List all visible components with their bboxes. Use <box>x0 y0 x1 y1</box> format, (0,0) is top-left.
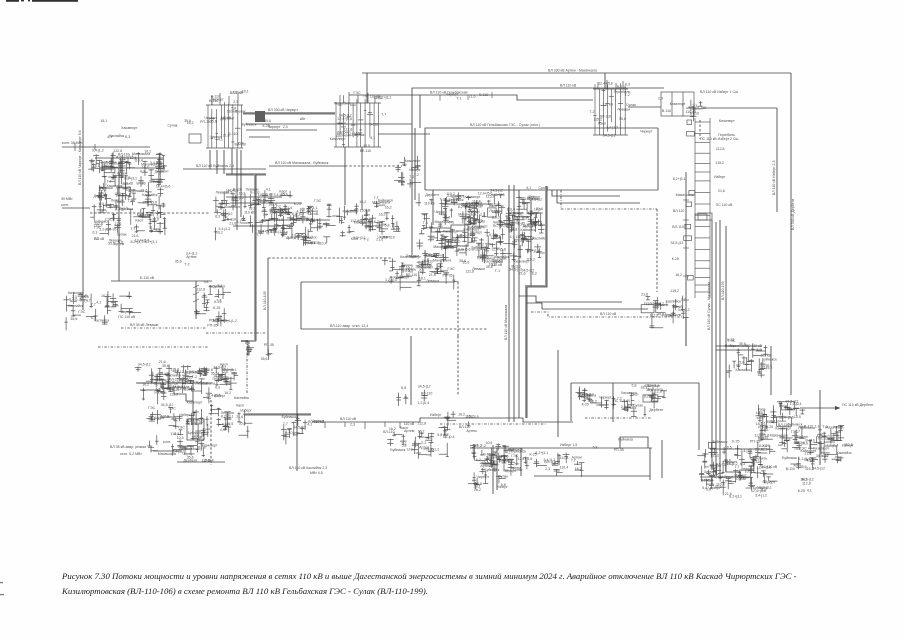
svg-text:35,6: 35,6 <box>203 459 210 463</box>
label bus 422 <box>340 413 442 421</box>
svg-text:110 кВ: 110 кВ <box>602 103 613 107</box>
svg-text:Кизилюрт: Кизилюрт <box>209 285 225 289</box>
svg-text:12,4+j5,6: 12,4+j5,6 <box>206 393 221 397</box>
svg-text:6,3: 6,3 <box>625 83 630 87</box>
svg-text:4,1: 4,1 <box>220 428 225 432</box>
svg-text:4,1: 4,1 <box>237 220 242 224</box>
svg-text:ГЭС: ГЭС <box>495 210 502 214</box>
wire bus 448 <box>470 447 652 449</box>
svg-text:Каспийск: Каспийск <box>528 211 543 215</box>
scan artifact top edge <box>6 0 78 2</box>
svg-text:ВЛ-110: ВЛ-110 <box>360 149 372 153</box>
svg-text:Сулак: Сулак <box>185 379 195 383</box>
svg-text:конт. 39 МВт: конт. 39 МВт <box>62 141 83 145</box>
ticks bus422 <box>325 422 400 429</box>
labels top clusters extra <box>209 95 238 105</box>
wire vertical 237 <box>236 149 238 230</box>
svg-text:РП-35: РП-35 <box>503 458 513 462</box>
svg-text:Махачкала: Махачкала <box>730 344 748 348</box>
svg-text:Кизилюрт: Кизилюрт <box>405 159 421 163</box>
wire row 130 <box>246 129 317 131</box>
wire vertical 268 <box>267 258 269 356</box>
svg-text:6,3: 6,3 <box>140 169 145 173</box>
svg-text:3,4-j1,2: 3,4-j1,2 <box>92 149 104 153</box>
substation box 3-cell <box>661 92 694 116</box>
wire staircase 1 <box>519 296 622 302</box>
wire loop top <box>571 382 699 384</box>
wire dash bus 213 <box>90 212 210 214</box>
svg-text:4,1: 4,1 <box>266 188 271 192</box>
wire fan3 vert dash <box>656 209 658 292</box>
svg-text:ВЛ-110 авар. откл. 12,4: ВЛ-110 авар. откл. 12,4 <box>330 324 368 328</box>
svg-text:В-110: В-110 <box>472 247 481 251</box>
svg-text:3,4-j1,2: 3,4-j1,2 <box>741 449 753 453</box>
wire box2 top <box>301 281 455 283</box>
substation cluster buynaksk <box>213 190 302 240</box>
svg-text:5,8: 5,8 <box>437 433 442 437</box>
svg-text:4,1: 4,1 <box>408 270 413 274</box>
substation cluster FR1 <box>778 425 844 469</box>
bus column Kizilyurt <box>334 95 381 147</box>
svg-text:16,2: 16,2 <box>101 294 108 298</box>
svg-text:1,2-j0,4: 1,2-j0,4 <box>443 435 455 439</box>
label row <box>263 119 288 129</box>
svg-text:34,5-j12: 34,5-j12 <box>603 133 616 137</box>
svg-text:кВт: кВт <box>300 117 306 121</box>
svg-text:РП-35: РП-35 <box>750 440 760 444</box>
svg-text:16,2: 16,2 <box>100 210 107 214</box>
svg-text:34,5-j12: 34,5-j12 <box>816 454 829 458</box>
wire BR1 h449 <box>710 448 770 450</box>
svg-text:21,6: 21,6 <box>365 219 372 223</box>
svg-text:Чирюрт: Чирюрт <box>763 481 776 485</box>
svg-text:35,6: 35,6 <box>264 119 271 123</box>
svg-text:7,7: 7,7 <box>256 233 261 237</box>
labels inside Kizilyurt col <box>336 114 378 140</box>
svg-text:ПС 110 кВ: ПС 110 кВ <box>118 315 135 319</box>
substation labels Kizilyurt <box>330 96 392 153</box>
stub TL1 tops <box>212 93 238 105</box>
wire h197 <box>226 196 282 198</box>
svg-text:16,2: 16,2 <box>172 369 179 373</box>
stub TM1 tops <box>340 92 375 103</box>
substation cluster 420 bottom <box>387 431 448 459</box>
substation cluster BC1b <box>281 414 308 445</box>
svg-text:12,4+j5,6: 12,4+j5,6 <box>456 248 471 252</box>
svg-text:Чирюрт: Чирюрт <box>226 189 239 193</box>
svg-text:В-110: В-110 <box>697 106 706 110</box>
svg-text:ВЛ 110 кВ Изберг 1 Сш: ВЛ 110 кВ Изберг 1 Сш <box>700 90 738 94</box>
svg-text:Буйнакск: Буйнакск <box>753 486 768 490</box>
svg-text:110 кВ: 110 кВ <box>424 201 435 205</box>
svg-text:6,3: 6,3 <box>285 430 290 434</box>
label VL top <box>548 69 597 73</box>
svg-text:Махачкала: Махачкала <box>435 220 453 224</box>
wire vert 650b <box>649 448 651 480</box>
wire gray main path <box>526 186 546 418</box>
tick marks 147 <box>75 143 95 151</box>
svg-text:ВЛ 110 кВ Чирюрт - Кизилюрт 5,: ВЛ 110 кВ Чирюрт - Кизилюрт 5,6 <box>78 130 82 185</box>
wire fan 3 dashdot <box>561 190 657 209</box>
wire h220 <box>262 219 330 221</box>
svg-text:18,1: 18,1 <box>358 219 365 223</box>
svg-text:34,5-j12: 34,5-j12 <box>339 114 352 118</box>
svg-text:21,6: 21,6 <box>519 272 526 276</box>
svg-text:Касп: Касп <box>236 404 244 408</box>
svg-text:2,3: 2,3 <box>283 125 288 129</box>
svg-text:7,7: 7,7 <box>473 444 478 448</box>
svg-text:4,1: 4,1 <box>481 461 486 465</box>
svg-text:Кизилюрт: Кизилюрт <box>400 255 416 259</box>
svg-text:4,1: 4,1 <box>807 459 812 463</box>
wire stub 605 <box>604 73 606 89</box>
wire gray companion <box>527 186 547 418</box>
transformer box dark <box>255 111 265 122</box>
labels 437 row <box>593 437 634 452</box>
svg-text:Изберг: Изберг <box>430 413 442 417</box>
wire big box right <box>657 128 659 190</box>
svg-text:110,4: 110,4 <box>407 447 416 451</box>
svg-text:35,6: 35,6 <box>237 142 244 146</box>
substation cluster central <box>416 192 513 265</box>
labels left bus rows <box>168 379 202 392</box>
substation cluster loop inner <box>576 387 668 418</box>
svg-text:ВЛ 330 кВ Чирюрт: ВЛ 330 кВ Чирюрт <box>268 108 298 112</box>
wire corner 248 <box>241 341 248 356</box>
labels 250 rows <box>175 252 198 267</box>
svg-text:10,5: 10,5 <box>177 436 184 440</box>
svg-text:Т-2: Т-2 <box>414 173 419 177</box>
svg-text:35,6: 35,6 <box>459 259 466 263</box>
svg-text:112,8: 112,8 <box>344 128 353 132</box>
svg-text:34,5-j12: 34,5-j12 <box>671 241 684 245</box>
wire drop 217 <box>216 150 218 174</box>
svg-text:34,5-j12: 34,5-j12 <box>270 230 283 234</box>
svg-text:ВЛ 330 кВ Артем - Махачкала: ВЛ 330 кВ Артем - Махачкала <box>548 69 597 73</box>
wire h203 <box>230 202 302 204</box>
svg-text:К-25: К-25 <box>263 124 270 128</box>
label tie <box>268 108 306 121</box>
svg-text:ВЛ 330 кВ Дербент: ВЛ 330 кВ Дербент <box>791 198 795 230</box>
svg-text:16,2: 16,2 <box>575 467 582 471</box>
wire bundle 712 b <box>715 222 717 452</box>
svg-text:Кизилюрт: Кизилюрт <box>508 211 524 215</box>
svg-text:РП-35: РП-35 <box>209 319 219 323</box>
component box central <box>451 225 468 246</box>
svg-text:18,1: 18,1 <box>419 276 426 280</box>
svg-text:35,6: 35,6 <box>261 357 268 361</box>
svg-text:К-25: К-25 <box>766 425 773 429</box>
svg-text:112,8: 112,8 <box>348 133 357 137</box>
svg-text:откл. 5,2 МВт: откл. 5,2 МВт <box>120 452 142 456</box>
wire left vert 119 <box>118 163 120 281</box>
svg-text:8,2+j3,1: 8,2+j3,1 <box>124 177 137 181</box>
svg-text:6,3: 6,3 <box>147 200 152 204</box>
svg-text:34,5-j12: 34,5-j12 <box>213 366 226 370</box>
wire thick vertical 255 <box>241 174 255 341</box>
wire box2 right dash <box>457 282 459 336</box>
wire dash 418 right <box>585 417 652 419</box>
svg-text:Буйнакск: Буйнакск <box>618 437 633 441</box>
svg-text:115,2: 115,2 <box>446 192 455 196</box>
svg-text:3,4-j1,2: 3,4-j1,2 <box>150 161 162 165</box>
svg-text:34,5-j12: 34,5-j12 <box>293 426 306 430</box>
svg-text:12,4+j5,6: 12,4+j5,6 <box>180 370 195 374</box>
wire row 124 <box>246 123 412 125</box>
substation cluster 162 small <box>146 365 172 383</box>
svg-text:21,6: 21,6 <box>114 222 121 226</box>
bus zigzag 383 <box>137 383 193 401</box>
label 712 rot <box>707 282 711 330</box>
svg-text:115,2: 115,2 <box>710 454 719 458</box>
svg-text:Леваши: Леваши <box>221 411 234 415</box>
svg-text:21,6: 21,6 <box>376 237 383 241</box>
svg-text:Кизилюрт: Кизилюрт <box>472 224 488 228</box>
wire 420 stub <box>419 95 421 128</box>
svg-text:6,3: 6,3 <box>418 264 423 268</box>
wire box2 bottom dash <box>398 328 487 330</box>
svg-text:Касп: Касп <box>222 422 230 426</box>
svg-text:К-25: К-25 <box>672 257 679 261</box>
svg-text:Буйнакск: Буйнакск <box>485 468 500 472</box>
svg-text:ВЛ 110 кВ Гельбахская ГЭС - Су: ВЛ 110 кВ Гельбахская ГЭС - Сулак (откл.… <box>470 123 540 127</box>
wire staircase 3 dashdot <box>531 312 684 317</box>
svg-text:6,3: 6,3 <box>740 462 745 466</box>
svg-text:2,3: 2,3 <box>233 100 238 104</box>
wire central bundle c <box>518 190 520 418</box>
wire vert 686 stub <box>685 317 687 346</box>
svg-text:21,6: 21,6 <box>285 206 292 210</box>
svg-text:10,5: 10,5 <box>486 441 493 445</box>
svg-text:Т-2: Т-2 <box>421 441 426 445</box>
svg-text:7,7: 7,7 <box>91 303 96 307</box>
wire bus 422 dash part <box>440 423 546 425</box>
chain BC2 v1 <box>492 445 494 494</box>
svg-text:К-25: К-25 <box>214 300 221 304</box>
svg-text:Чирюрт: Чирюрт <box>503 469 516 473</box>
wire arrow right <box>800 407 840 409</box>
wire VL third top <box>349 95 593 100</box>
svg-text:Гергебиль: Гергебиль <box>750 457 767 461</box>
wire 174 bus thick <box>226 173 266 175</box>
label izberg 1 <box>700 90 738 94</box>
wire 174 bus <box>226 174 266 176</box>
substation cluster left mid big <box>88 152 167 236</box>
chain BC2 v2 <box>496 448 498 490</box>
svg-text:8,2+j3,1: 8,2+j3,1 <box>644 394 657 398</box>
svg-text:Т-1: Т-1 <box>456 96 461 100</box>
svg-text:ГЭС: ГЭС <box>148 406 155 410</box>
svg-text:21,6: 21,6 <box>805 451 812 455</box>
svg-text:112,8: 112,8 <box>716 147 725 151</box>
svg-text:Чирюрт: Чирюрт <box>121 310 134 314</box>
wire vert 415 <box>414 128 416 200</box>
svg-text:110,4: 110,4 <box>560 465 569 469</box>
svg-text:ВЛ-110: ВЛ-110 <box>477 255 489 259</box>
svg-text:Каспийск: Каспийск <box>109 134 124 138</box>
svg-text:ГЭС: ГЭС <box>78 310 85 314</box>
substation cluster 222 small <box>216 365 234 382</box>
wire TM1 down b <box>361 147 363 210</box>
label 268 rot <box>263 291 267 310</box>
wire vert 820 <box>819 390 821 465</box>
svg-text:Дербент: Дербент <box>183 458 197 462</box>
wire dashdot 328 left <box>121 327 206 329</box>
svg-text:10,5: 10,5 <box>363 144 370 148</box>
svg-text:12,4+j5,6: 12,4+j5,6 <box>779 416 794 420</box>
svg-text:7,7: 7,7 <box>130 227 135 231</box>
svg-text:В-110: В-110 <box>209 99 218 103</box>
svg-text:7,7: 7,7 <box>381 113 386 117</box>
svg-text:2,3: 2,3 <box>545 467 550 471</box>
svg-text:ВЛ 110 кВ Сулак - Махачкала: ВЛ 110 кВ Сулак - Махачкала <box>707 282 711 330</box>
wire bus 476 <box>534 475 650 477</box>
svg-text:112,8: 112,8 <box>466 269 475 273</box>
labels left of Chiryurt <box>168 116 218 128</box>
svg-text:Сулак: Сулак <box>468 210 478 214</box>
svg-text:ГЭС: ГЭС <box>314 199 321 203</box>
svg-text:3,4-j1,2: 3,4-j1,2 <box>755 493 767 497</box>
svg-text:112,8: 112,8 <box>197 288 206 292</box>
svg-text:112,8: 112,8 <box>204 368 213 372</box>
svg-text:6,3: 6,3 <box>92 231 97 235</box>
wire bundle 712 a <box>711 220 713 452</box>
bus 158 <box>95 157 163 159</box>
svg-text:Сулак: Сулак <box>290 431 300 435</box>
svg-text:Дербент: Дербент <box>649 408 663 412</box>
label 166 <box>275 161 329 165</box>
svg-text:16,2: 16,2 <box>675 273 682 277</box>
substation cluster MR2 <box>726 343 769 378</box>
wire vertical 232 <box>231 148 233 174</box>
wire bundle jog d <box>726 448 741 472</box>
svg-text:12,4+j5,6: 12,4+j5,6 <box>156 184 171 188</box>
svg-text:21,6: 21,6 <box>132 234 139 238</box>
svg-text:16,2: 16,2 <box>443 216 450 220</box>
wire central bundle b <box>513 185 515 422</box>
substation cluster BC1 <box>209 408 253 439</box>
label 169 <box>196 164 234 168</box>
wire bundle jog c <box>720 452 736 477</box>
svg-text:34,5-j12: 34,5-j12 <box>786 400 799 404</box>
svg-text:2,3: 2,3 <box>493 461 498 465</box>
svg-text:Чирюрт: Чирюрт <box>704 470 717 474</box>
wire VL 330 top <box>362 72 791 74</box>
svg-text:К-25: К-25 <box>798 489 805 493</box>
svg-text:5,8: 5,8 <box>204 280 209 284</box>
svg-text:ПС 110 кВ: ПС 110 кВ <box>613 399 630 403</box>
svg-text:Буйнакск: Буйнакск <box>648 387 663 391</box>
svg-text:ВЛ-110-105: ВЛ-110-105 <box>263 291 267 310</box>
svg-text:К-25: К-25 <box>582 403 589 407</box>
svg-text:6,3: 6,3 <box>125 135 130 139</box>
svg-text:Касп: Касп <box>598 121 606 125</box>
svg-text:К-25: К-25 <box>732 439 739 443</box>
svg-text:8,2+j3,1: 8,2+j3,1 <box>131 240 144 244</box>
svg-text:Т-2: Т-2 <box>184 263 189 267</box>
svg-text:7,7: 7,7 <box>86 299 91 303</box>
component box 712 top <box>698 213 712 220</box>
svg-text:110 кВ: 110 кВ <box>672 305 683 309</box>
svg-text:Касп: Касп <box>475 219 483 223</box>
svg-text:ГЭС: ГЭС <box>728 339 735 343</box>
svg-text:ПС 110 кВ: ПС 110 кВ <box>716 203 733 207</box>
labels top clusters extra2 <box>354 91 383 100</box>
wire TM1 down a <box>344 147 346 205</box>
svg-text:Т-2: Т-2 <box>276 205 281 209</box>
svg-text:ВЛ-110: ВЛ-110 <box>459 425 471 429</box>
svg-text:3,4-j1,2: 3,4-j1,2 <box>186 252 198 256</box>
svg-text:8,2+j3,1: 8,2+j3,1 <box>673 177 686 181</box>
wire 414 line <box>244 414 311 416</box>
svg-text:8,2+j3,1: 8,2+j3,1 <box>145 240 158 244</box>
svg-text:115,2: 115,2 <box>670 289 679 293</box>
svg-text:ВЛ-110: ВЛ-110 <box>673 209 685 213</box>
svg-text:110 кВ: 110 кВ <box>94 237 105 241</box>
svg-text:ПС 110 кВ Изберг 2 Сш: ПС 110 кВ Изберг 2 Сш <box>700 137 739 141</box>
svg-text:112,8: 112,8 <box>802 481 811 485</box>
wire thick 414 <box>244 413 311 415</box>
svg-text:18,1: 18,1 <box>242 89 249 93</box>
svg-text:5,8: 5,8 <box>794 440 799 444</box>
wire vert 411b <box>410 336 412 405</box>
svg-text:21,6: 21,6 <box>429 273 436 277</box>
svg-text:18,1: 18,1 <box>640 386 647 390</box>
svg-text:110 кВ: 110 кВ <box>700 478 711 482</box>
svg-text:ВЛ 110 кВ Каспийск 2,3: ВЛ 110 кВ Каспийск 2,3 <box>289 466 327 470</box>
substation cluster 410 mid <box>394 156 421 188</box>
svg-text:2,3: 2,3 <box>350 423 355 427</box>
svg-text:Чирюрт: Чирюрт <box>528 195 541 199</box>
svg-text:21,6: 21,6 <box>229 221 236 225</box>
svg-text:12,4+j5,6: 12,4+j5,6 <box>491 248 506 252</box>
scan artifact left margin <box>0 582 4 595</box>
svg-text:Чирюрт: Чирюрт <box>312 419 325 423</box>
svg-text:4,1: 4,1 <box>477 205 482 209</box>
svg-text:112,8: 112,8 <box>418 421 427 425</box>
wire vert 613 <box>612 383 614 422</box>
wire BL1 bus <box>136 382 212 384</box>
svg-text:В-110: В-110 <box>479 93 488 97</box>
svg-text:2,3: 2,3 <box>283 231 288 235</box>
svg-text:16,2: 16,2 <box>474 488 481 492</box>
svg-text:8,2+j3,1: 8,2+j3,1 <box>527 249 540 253</box>
svg-text:110 кВ: 110 кВ <box>308 212 319 216</box>
wire drop 210 <box>209 150 211 169</box>
labels FR2 <box>798 478 814 493</box>
svg-text:Леваши: Леваши <box>617 108 630 112</box>
step 437 <box>620 437 648 448</box>
svg-text:Касп: Касп <box>135 219 143 223</box>
svg-text:РП-35: РП-35 <box>443 274 453 278</box>
wire 477 right <box>700 476 750 478</box>
svg-text:ВЛ-110: ВЛ-110 <box>710 464 722 468</box>
svg-text:Буйнакск: Буйнакск <box>188 431 203 435</box>
svg-text:21,6: 21,6 <box>718 189 725 193</box>
wire right col 686 <box>685 172 687 346</box>
svg-text:ГЭС: ГЭС <box>791 430 798 434</box>
svg-text:Чирюрт: Чирюрт <box>477 475 490 479</box>
wire drop 224 <box>223 150 225 174</box>
svg-text:Т-1: Т-1 <box>124 197 129 201</box>
svg-text:Дербент: Дербент <box>220 117 234 121</box>
svg-text:6,3: 6,3 <box>215 214 220 218</box>
ladder Izberg <box>684 118 710 298</box>
svg-text:5,8: 5,8 <box>739 360 744 364</box>
wire 258 dash right <box>268 257 392 259</box>
svg-text:16,2: 16,2 <box>385 206 392 210</box>
svg-text:4,1: 4,1 <box>807 489 812 493</box>
